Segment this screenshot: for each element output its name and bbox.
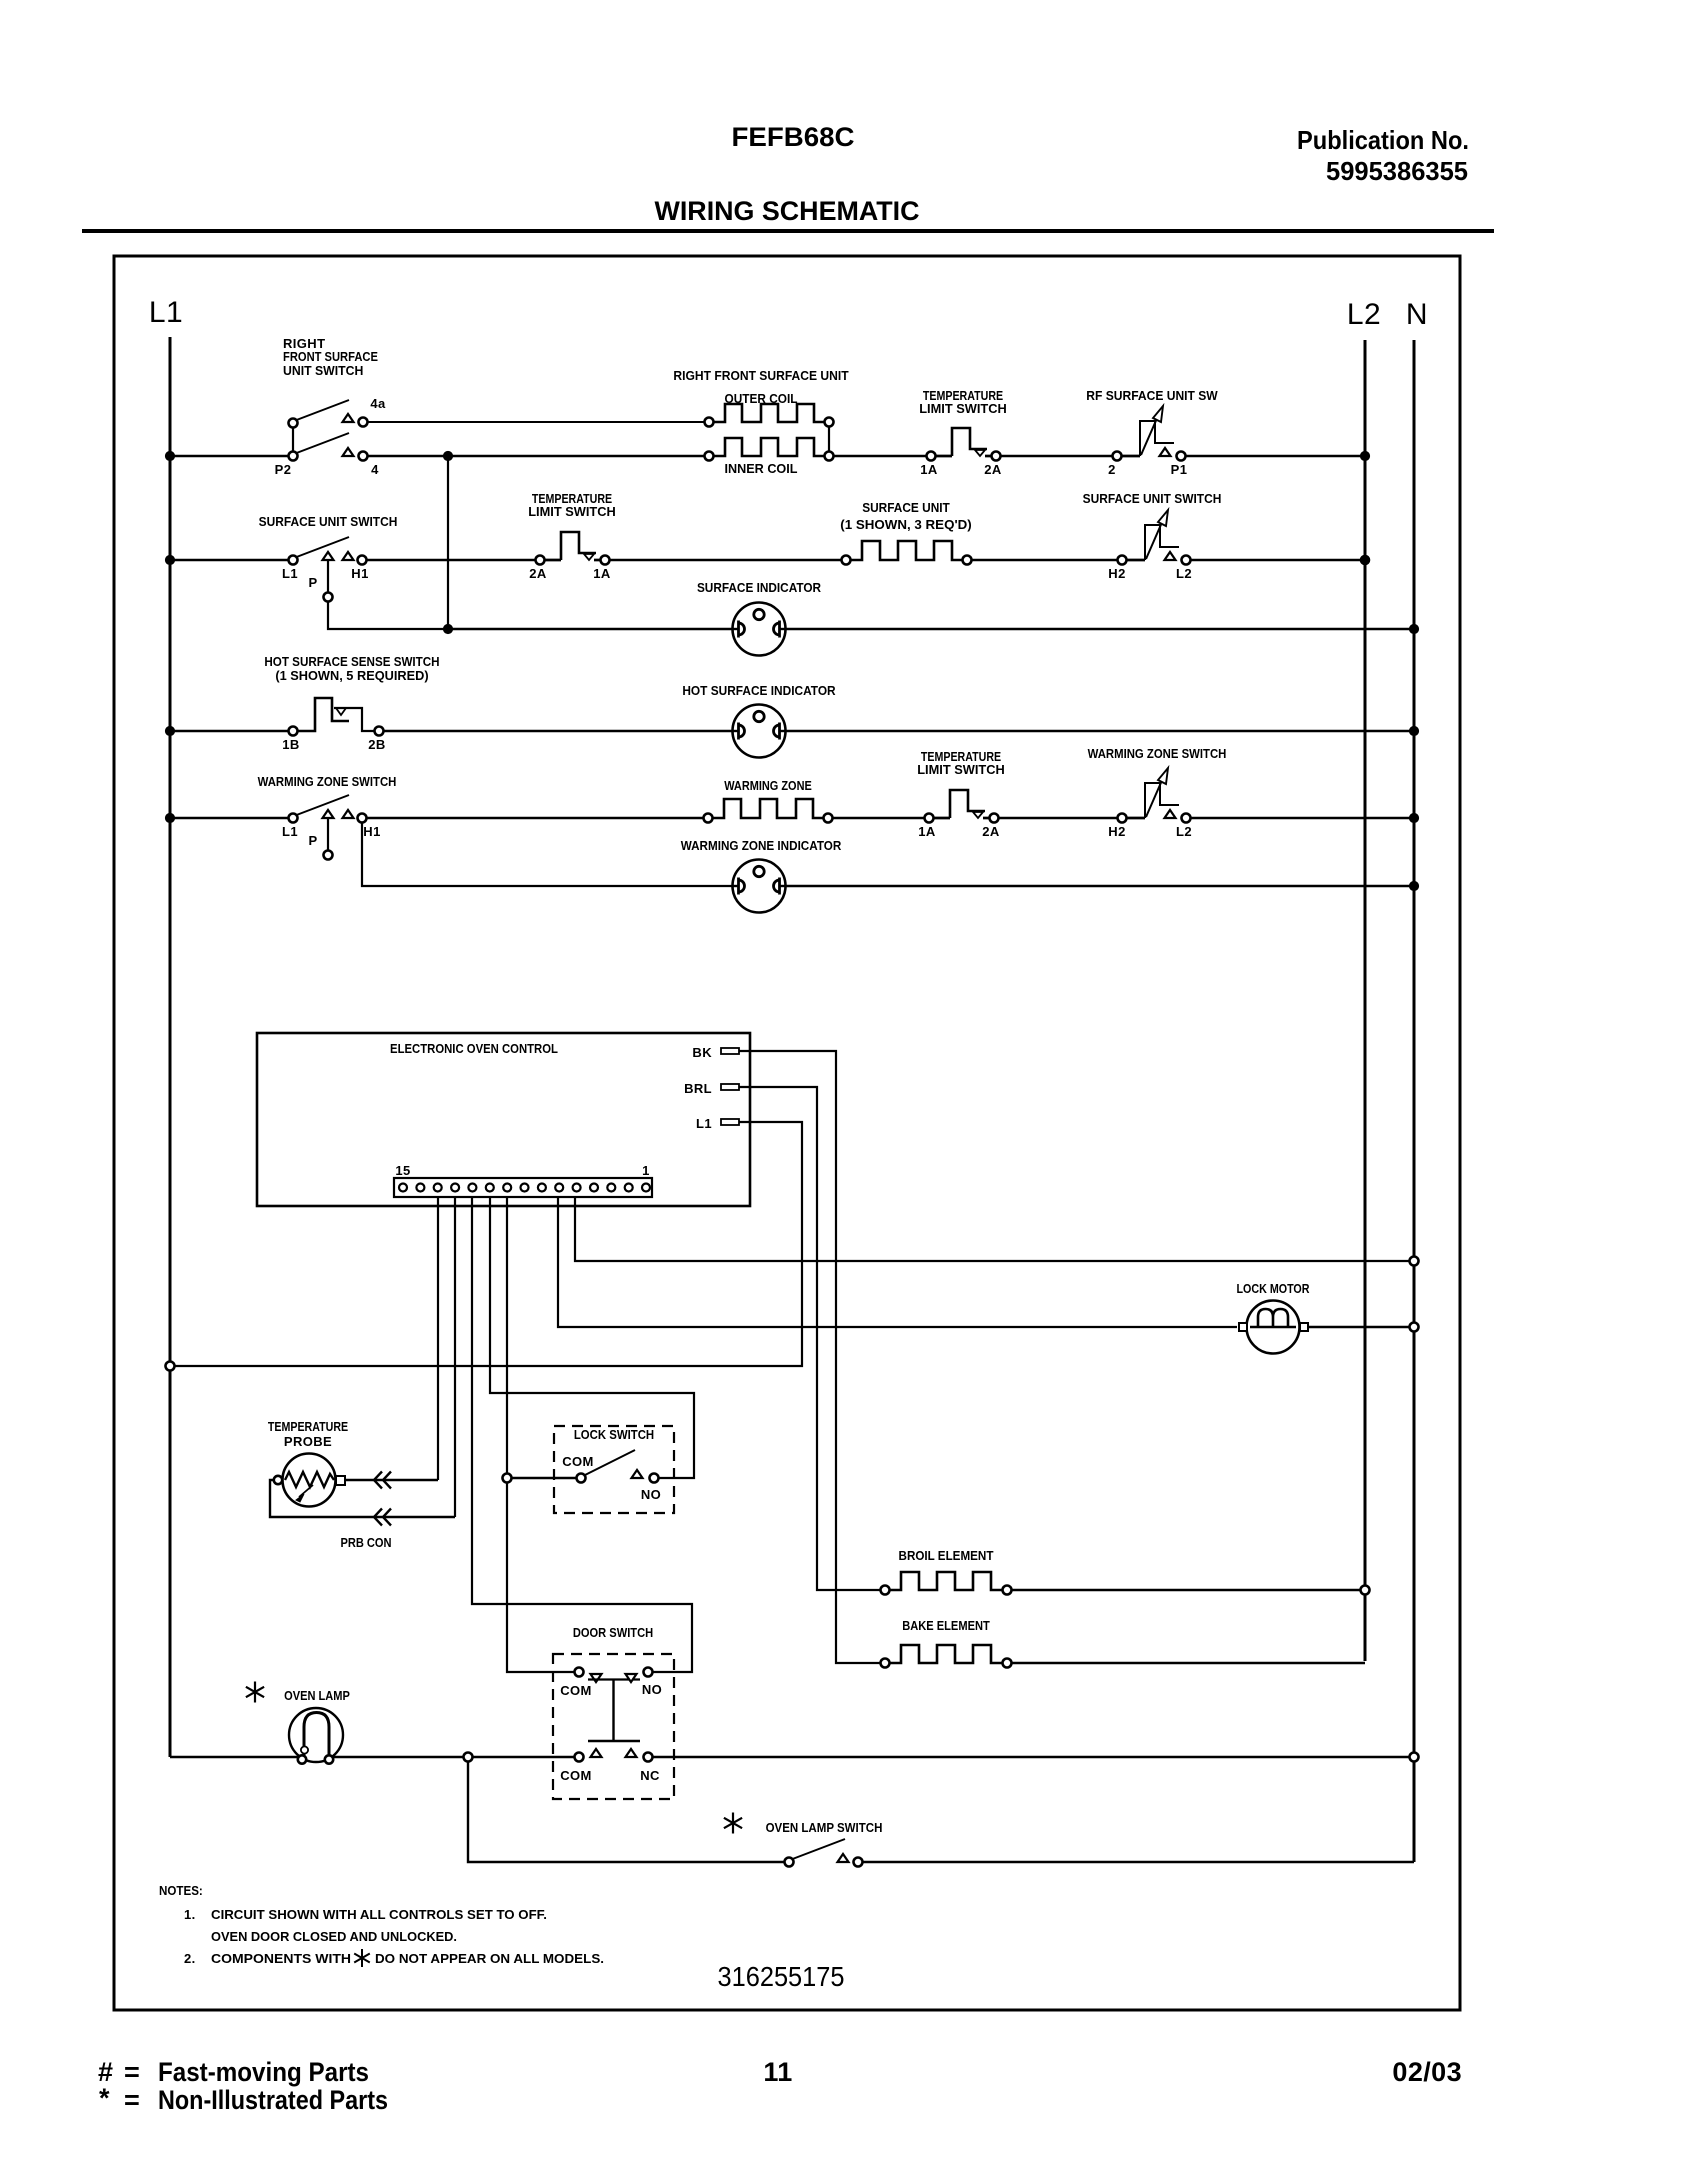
wire L1 to sense switch 1B — [170, 730, 289, 733]
switch S9 door switch — [553, 1625, 674, 1799]
svg-text:PRB CON: PRB CON — [340, 1535, 391, 1550]
svg-text:L1: L1 — [149, 296, 183, 329]
wire probe left terminal loop to pin12 wire — [270, 1480, 455, 1517]
terminal BRL — [684, 1081, 739, 1096]
wire pin10 to lock switch NO — [490, 1197, 694, 1478]
svg-text:=: = — [124, 2085, 140, 2115]
svg-text:2A: 2A — [982, 824, 1000, 839]
resistor RT1 temperature probe — [268, 1419, 392, 1550]
svg-text:2B: 2B — [368, 737, 385, 752]
wire pin6 to lock motor — [558, 1197, 1237, 1327]
lamp E1 oven lamp — [246, 1682, 350, 1764]
wire contact 4 to inner coil — [368, 455, 705, 457]
junction pin5 wire on N — [1410, 1257, 1419, 1266]
svg-text:COM: COM — [560, 1768, 592, 1783]
svg-text:(1 SHOWN, 5 REQUIRED): (1 SHOWN, 5 REQUIRED) — [275, 668, 428, 683]
svg-text:BROIL ELEMENT: BROIL ELEMENT — [899, 1548, 994, 1563]
svg-text:COM: COM — [562, 1454, 594, 1469]
svg-text:NO: NO — [642, 1682, 662, 1697]
svg-text:LIMIT SWITCH: LIMIT SWITCH — [919, 401, 1007, 416]
wire oven lamp switch to N bus bottom — [863, 1861, 1415, 1863]
junction L1 wire on L1 bus — [166, 1362, 175, 1371]
svg-text:COM: COM — [560, 1683, 592, 1698]
svg-text:FEFB68C: FEFB68C — [732, 122, 855, 152]
module U1 electronic oven control box — [257, 1033, 750, 1206]
lamp DS1 surface indicator — [697, 580, 822, 656]
svg-text:(1 SHOWN, 3 REQ'D): (1 SHOWN, 3 REQ'D) — [840, 517, 971, 532]
junction row1 on L2 — [1360, 451, 1369, 460]
motor M1 lock motor — [1237, 1281, 1310, 1354]
svg-text:H1: H1 — [351, 566, 368, 581]
svg-text:OVEN DOOR CLOSED AND UNLOCKED.: OVEN DOOR CLOSED AND UNLOCKED. — [211, 1929, 457, 1944]
junction on L1 row4 — [165, 813, 174, 822]
switch S2 RF surface unit switch — [1086, 388, 1218, 477]
switch S7 warming zone switch right — [1088, 746, 1227, 839]
wire N bus vertical — [1413, 340, 1416, 1862]
svg-text:LIMIT SWITCH: LIMIT SWITCH — [917, 762, 1005, 777]
resistor outer coil right front surface unit — [673, 368, 848, 427]
svg-text:BK: BK — [692, 1045, 712, 1060]
svg-text:L1: L1 — [696, 1116, 712, 1131]
svg-text:DO NOT APPEAR ON ALL MODELS.: DO NOT APPEAR ON ALL MODELS. — [375, 1951, 604, 1966]
svg-text:=: = — [124, 2057, 140, 2087]
svg-text:OVEN LAMP SWITCH: OVEN LAMP SWITCH — [766, 1820, 883, 1835]
svg-text:Publication No.: Publication No. — [1297, 125, 1469, 155]
svg-text:L1: L1 — [282, 566, 298, 581]
wire 2A to warming zone switch right — [999, 817, 1118, 819]
wire branch down to oven lamp switch — [468, 1762, 785, 1863]
junction on L1 row3 — [165, 726, 174, 735]
wire junction to door switch COM lower — [473, 1756, 575, 1758]
junction door NC row on N — [1410, 1753, 1419, 1762]
svg-text:HOT SURFACE INDICATOR: HOT SURFACE INDICATOR — [682, 683, 836, 698]
junction oven lamp switch branch — [464, 1753, 473, 1762]
thermostat TL2 temperature limit switch row2 — [528, 491, 616, 581]
svg-text:OVEN LAMP: OVEN LAMP — [284, 1688, 350, 1703]
resistor warming zone element — [704, 778, 833, 823]
lamp DS3 warming zone indicator — [681, 838, 842, 913]
wire BRL terminal to broil element — [739, 1087, 881, 1590]
svg-text:SURFACE UNIT: SURFACE UNIT — [862, 500, 950, 515]
svg-text:1A: 1A — [920, 462, 938, 477]
resistor inner coil — [705, 438, 834, 476]
svg-text:L2: L2 — [1176, 824, 1192, 839]
svg-text:4a: 4a — [370, 396, 386, 411]
switch S10 oven lamp switch — [724, 1813, 882, 1867]
svg-text:Non-Illustrated Parts: Non-Illustrated Parts — [158, 2085, 388, 2115]
svg-text:2A: 2A — [984, 462, 1002, 477]
junction indicator row on N — [1409, 624, 1418, 633]
wire element to limit switch 1A — [833, 817, 925, 819]
junction indicator row4 on N — [1409, 881, 1418, 890]
svg-text:BAKE ELEMENT: BAKE ELEMENT — [902, 1618, 990, 1633]
svg-text:02/03: 02/03 — [1392, 2057, 1462, 2087]
svg-text:INNER COIL: INNER COIL — [725, 461, 798, 476]
wire hot surface indicator to N bus — [786, 730, 1415, 732]
svg-text:1B: 1B — [282, 737, 299, 752]
svg-text:WARMING ZONE SWITCH: WARMING ZONE SWITCH — [1088, 746, 1227, 761]
wire oven lamp to junction — [333, 1756, 464, 1758]
wire P contact down to indicator branch — [328, 602, 448, 630]
wire pin5 to N bus — [575, 1197, 1410, 1261]
svg-text:L2: L2 — [1176, 566, 1192, 581]
svg-text:BRL: BRL — [684, 1081, 712, 1096]
junction on L1 row2 — [165, 555, 174, 564]
svg-text:Fast-moving Parts: Fast-moving Parts — [158, 2057, 369, 2087]
wire to surface indicator — [448, 628, 733, 630]
svg-text:RIGHT FRONT SURFACE UNIT: RIGHT FRONT SURFACE UNIT — [673, 368, 848, 383]
svg-text:COMPONENTS WITH: COMPONENTS WITH — [211, 1951, 351, 1966]
wire L1 to warming zone switch — [170, 817, 289, 820]
wire inner coil to limit switch 1A — [834, 455, 927, 457]
wire pin9 to lock and door switch COM — [507, 1197, 575, 1672]
junction pin9 at lock switch COM — [503, 1474, 512, 1483]
svg-text:NOTES:: NOTES: — [159, 1883, 203, 1898]
wire L1 terminal to L1 bus — [175, 1122, 803, 1366]
wire BK terminal to bake element — [739, 1051, 881, 1663]
connector chevrons probe lead 2 — [374, 1509, 391, 1526]
svg-text:1A: 1A — [918, 824, 936, 839]
wire L1 to switch P2 — [170, 455, 289, 458]
wire joining outer and inner coil ends — [828, 427, 830, 452]
switch S6 warming zone switch left — [258, 774, 397, 860]
wire P1 to L2 bus — [1186, 455, 1366, 457]
wire 2A to RF surface unit switch — [1001, 455, 1113, 457]
thermostat TL3 temperature limit switch row4 — [917, 749, 1005, 839]
svg-text:N: N — [1406, 298, 1428, 331]
junction row2 on L2 — [1360, 555, 1370, 565]
svg-text:UNIT SWITCH: UNIT SWITCH — [283, 363, 363, 378]
svg-text:1A: 1A — [593, 566, 611, 581]
junction on L1 row1 — [165, 451, 174, 460]
title underline rule — [82, 229, 1494, 233]
svg-text:H2: H2 — [1108, 824, 1125, 839]
svg-text:LOCK MOTOR: LOCK MOTOR — [1237, 1281, 1310, 1296]
svg-text:2A: 2A — [529, 566, 547, 581]
wire H1 down to warming zone indicator branch — [362, 823, 733, 887]
thermostat TL1 temperature limit switch row1 — [919, 388, 1007, 477]
wire 1A to surface unit element — [610, 559, 842, 561]
svg-text:H2: H2 — [1108, 566, 1125, 581]
resistor broil element — [881, 1548, 1012, 1595]
svg-text:2.: 2. — [184, 1951, 196, 1966]
wire surface indicator to N bus — [786, 628, 1415, 630]
svg-text:FRONT SURFACE: FRONT SURFACE — [283, 349, 378, 364]
switch S3 surface unit switch left — [259, 514, 398, 602]
svg-text:5995386355: 5995386355 — [1326, 156, 1468, 186]
wire pin12 to probe connector return — [454, 1197, 456, 1517]
terminal L1 of oven control — [696, 1116, 739, 1131]
svg-text:WARMING ZONE INDICATOR: WARMING ZONE INDICATOR — [681, 838, 842, 853]
svg-text:CIRCUIT SHOWN WITH ALL CONTROL: CIRCUIT SHOWN WITH ALL CONTROLS SET TO O… — [211, 1907, 547, 1922]
svg-text:PROBE: PROBE — [284, 1434, 332, 1449]
svg-text:LOCK SWITCH: LOCK SWITCH — [574, 1427, 654, 1442]
svg-text:HOT SURFACE SENSE SWITCH: HOT SURFACE SENSE SWITCH — [264, 654, 439, 669]
wire junction down to indicator row — [447, 456, 449, 629]
wire bake element to L2 bus corner — [1012, 1662, 1366, 1664]
switch S4 surface unit switch right — [1083, 491, 1222, 581]
svg-text:316255175: 316255175 — [718, 1961, 845, 1992]
svg-text:15: 15 — [395, 1163, 410, 1178]
wire L2 contact to L2 bus — [1192, 559, 1366, 561]
switch S8 lock switch — [554, 1426, 674, 1513]
connector chevrons probe lead 1 — [374, 1472, 391, 1489]
wire probe right terminal to pin13 wire — [345, 1479, 438, 1481]
notes block — [159, 1883, 604, 1967]
svg-text:NC: NC — [640, 1768, 660, 1783]
svg-text:4: 4 — [371, 462, 379, 477]
svg-text:NO: NO — [641, 1487, 661, 1502]
junction row3 on N — [1409, 726, 1418, 735]
switch S1 right front surface unit switch — [275, 336, 386, 477]
svg-text:P2: P2 — [275, 462, 292, 477]
svg-text:P: P — [308, 833, 317, 848]
junction row4 on N — [1409, 813, 1418, 822]
wire H1 to warming zone element — [367, 817, 704, 819]
wire H1 to limit switch 2A — [367, 559, 536, 561]
junction indicator branch — [443, 624, 452, 633]
wire pin13 to temperature probe — [437, 1197, 439, 1480]
svg-text:P1: P1 — [1171, 462, 1188, 477]
terminal BK — [692, 1045, 739, 1060]
wire L1 bus corner to oven lamp — [170, 1756, 298, 1759]
svg-text:SURFACE UNIT SWITCH: SURFACE UNIT SWITCH — [259, 514, 398, 529]
wire L1 bus vertical — [169, 337, 172, 1757]
wire warming zone indicator to N bus — [786, 885, 1415, 887]
wire L2 contact to N bus row4 — [1192, 817, 1415, 819]
lamp DS2 hot surface indicator — [682, 683, 836, 758]
svg-text:SURFACE INDICATOR: SURFACE INDICATOR — [697, 580, 822, 595]
connector P1 15-pin strip — [394, 1163, 652, 1197]
svg-text:LIMIT SWITCH: LIMIT SWITCH — [528, 504, 616, 519]
svg-text:*: * — [99, 2083, 110, 2113]
svg-text:1.: 1. — [184, 1907, 196, 1922]
border frame — [114, 256, 1460, 2010]
junction lock motor wire on N — [1410, 1323, 1419, 1332]
junction row1 to indicator branch — [443, 451, 452, 460]
wire element to H2 — [972, 559, 1118, 561]
wire 2B to hot surface indicator — [384, 730, 733, 732]
svg-text:RF SURFACE UNIT SW: RF SURFACE UNIT SW — [1086, 388, 1218, 403]
svg-text:L2: L2 — [1347, 298, 1381, 331]
resistor bake element — [881, 1618, 1012, 1668]
svg-text:DOOR SWITCH: DOOR SWITCH — [573, 1625, 653, 1640]
svg-text:H1: H1 — [363, 824, 380, 839]
svg-text:L1: L1 — [282, 824, 298, 839]
wire contact 4a to outer coil — [368, 421, 705, 423]
wire pin11 to door switch NO — [472, 1197, 692, 1672]
wire door switch NC to N bus — [653, 1756, 1410, 1758]
svg-text:WARMING ZONE SWITCH: WARMING ZONE SWITCH — [258, 774, 397, 789]
svg-text:SURFACE UNIT SWITCH: SURFACE UNIT SWITCH — [1083, 491, 1222, 506]
junction broil row on L2 — [1361, 1586, 1370, 1595]
wire junction to lock switch COM — [512, 1477, 577, 1479]
wire L1 to surface unit switch — [170, 559, 289, 562]
resistor surface unit element — [840, 500, 971, 565]
wire L2 bus vertical — [1364, 340, 1367, 1661]
wire broil element to L2 bus — [1012, 1589, 1366, 1591]
svg-text:P: P — [308, 575, 317, 590]
svg-text:WIRING SCHEMATIC: WIRING SCHEMATIC — [655, 196, 920, 226]
svg-text:WARMING ZONE: WARMING ZONE — [724, 778, 812, 793]
svg-text:TEMPERATURE: TEMPERATURE — [268, 1419, 349, 1434]
svg-text:2: 2 — [1108, 462, 1116, 477]
svg-text:11: 11 — [763, 2057, 792, 2087]
wire lock motor to N bus — [1308, 1326, 1410, 1328]
svg-text:ELECTRONIC OVEN CONTROL: ELECTRONIC OVEN CONTROL — [390, 1041, 558, 1056]
svg-text:1: 1 — [642, 1163, 650, 1178]
switch S5 hot surface sense switch — [264, 654, 439, 752]
